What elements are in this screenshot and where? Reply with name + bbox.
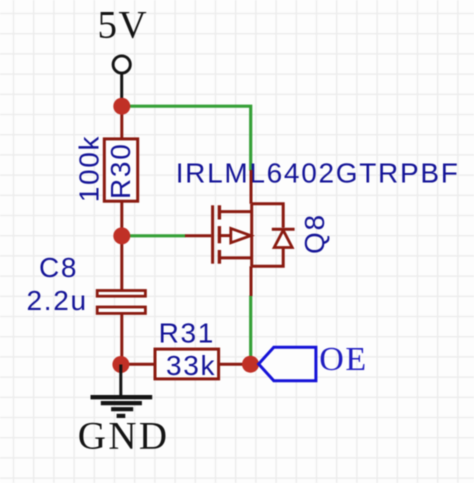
transistor Q8 source-drain vertical bar (250, 204, 253, 266)
ground bar 1 (91, 395, 153, 399)
node B junction at R30 bottom (113, 227, 130, 244)
transistor Q8 source contact line (219, 210, 251, 213)
resistor R31 right pin to node D (220, 363, 244, 366)
transistor Q8 source pin upper (250, 170, 253, 204)
ground bar 3 (111, 407, 133, 411)
ground bar 2 (101, 401, 142, 405)
wire R30 top pin (120, 106, 123, 138)
transistor Q8 drain contact line (219, 256, 251, 259)
transistor Q8 drain pin lower (250, 266, 253, 296)
svg-text:R31: R31 (159, 317, 215, 348)
svg-text:2.2u: 2.2u (27, 285, 88, 316)
svg-text:Q8: Q8 (299, 213, 330, 254)
diode D bottom branch (252, 248, 284, 267)
svg-text:5V: 5V (98, 4, 149, 47)
resistor R30 body (104, 139, 137, 201)
global label OE flag outline (259, 347, 316, 381)
ground bar 4 (117, 414, 126, 418)
svg-text:100k: 100k (74, 135, 105, 203)
diode D cathode bar (272, 228, 295, 231)
diode D body top branch (252, 204, 284, 228)
svg-text:33k: 33k (166, 350, 216, 381)
svg-text:C8: C8 (39, 252, 78, 283)
node C junction at C8 bottom / GND (112, 356, 129, 373)
resistor R31 left pin from node C (128, 363, 154, 366)
wire green gate from node B to Q8 gate (130, 234, 186, 237)
svg-text:OE: OE (319, 341, 367, 378)
transistor Q8 channel top segment (218, 205, 221, 219)
wire green Q8 drain down to node D (249, 296, 252, 358)
svg-text:GND: GND (78, 414, 170, 457)
wire C8 bottom pin to node C (120, 315, 123, 365)
transistor Q8 gate plate (211, 205, 214, 263)
transistor Q8 body contact line (219, 234, 230, 237)
capacitor C8 top plate (97, 291, 145, 297)
svg-text:IRLML6402GTRPBF: IRLML6402GTRPBF (176, 158, 460, 189)
resistor R31 body (155, 349, 219, 379)
capacitor C8 bottom plate (97, 307, 145, 313)
transistor Q8 channel bottom segment (218, 250, 221, 264)
node D junction at R31 right / OE (242, 356, 259, 373)
wire R30 bottom pin to node B (120, 203, 123, 237)
power flag 5V circle (113, 56, 130, 73)
diode D anode triangle (274, 230, 292, 247)
ground stem wire (119, 365, 122, 396)
wire green top from node A to MOSFET source elbow (129, 106, 251, 170)
svg-text:R30: R30 (105, 143, 136, 199)
transistor Q8 channel middle segment (218, 226, 221, 243)
wire C8 top pin (120, 236, 123, 290)
transistor Q8 body arrow (231, 228, 251, 242)
transistor Q8 gate pin (185, 234, 211, 237)
node A junction at 5V rail (113, 98, 130, 115)
power flag 5V stem wire (120, 74, 123, 106)
